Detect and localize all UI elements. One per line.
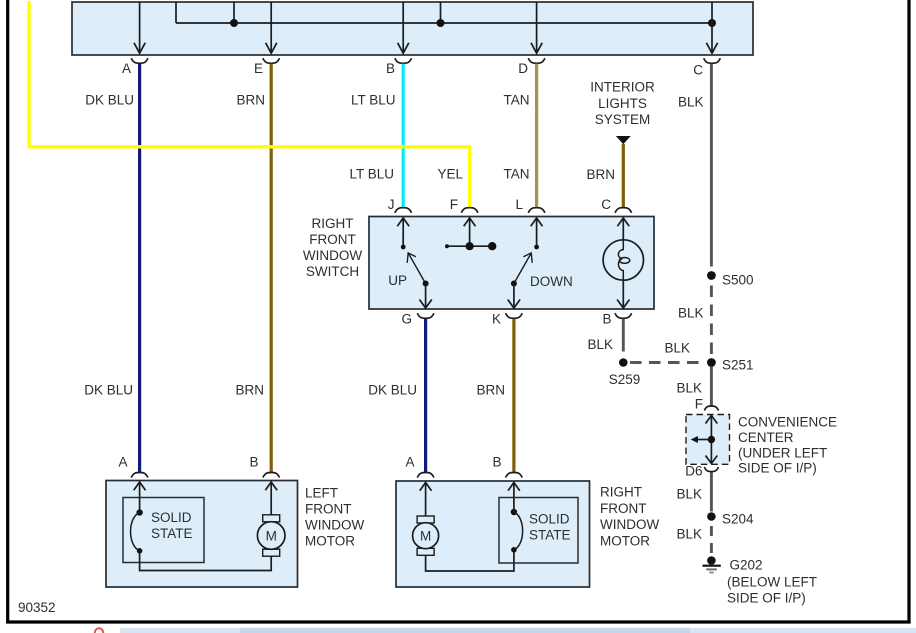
wire BLK (C to S500) (678, 64, 711, 267)
right motor pin B dome (492, 455, 522, 478)
svg-text:DK BLU: DK BLU (84, 383, 133, 398)
svg-text:STATE: STATE (529, 528, 571, 543)
left motor solid state box (123, 498, 204, 563)
interior lights system arrow triangle (616, 136, 631, 144)
switch pin C dome (601, 197, 631, 213)
svg-text:BLK: BLK (678, 95, 704, 110)
feed wire to pin B with arrow (398, 2, 409, 53)
wire YEL from off-page to switch F (29, 1, 470, 208)
svg-text:FRONT: FRONT (309, 232, 356, 247)
interior lights system label (590, 80, 655, 127)
bus wire inside power box (176, 22, 712, 24)
wire BRN left (E to left motor) (235, 64, 271, 472)
wire BRN (K to right motor B) (476, 319, 513, 472)
svg-text:A: A (405, 455, 414, 470)
left motor M symbol (257, 515, 285, 556)
convenience center label (738, 415, 837, 476)
switch G internal line with down arrow (419, 284, 431, 309)
svg-text:LT BLU: LT BLU (351, 93, 396, 108)
left motor B internal line with up arrow (265, 482, 277, 515)
svg-text:J: J (388, 197, 395, 212)
connector pin A cup (122, 58, 148, 76)
wire BLK (S251 to convenience center F) (676, 367, 711, 406)
svg-text:STATE: STATE (151, 526, 193, 541)
svg-text:SWITCH: SWITCH (306, 264, 359, 279)
svg-text:S259: S259 (609, 372, 641, 387)
svg-text:A: A (122, 61, 131, 76)
left motor bottom wire (140, 551, 272, 571)
bottom ui strip (95, 628, 916, 633)
junction dot x712 (708, 19, 716, 27)
feed wire to pin E with arrow (266, 2, 277, 53)
svg-text:B: B (249, 455, 258, 470)
svg-text:(BELOW LEFT: (BELOW LEFT (727, 575, 817, 590)
right front window switch label (303, 216, 362, 279)
left motor solid state contact arc (131, 509, 143, 553)
svg-text:BLK: BLK (664, 341, 690, 356)
wire BLK dashed (S500 to S251) (678, 286, 711, 356)
connector pin B cup (386, 58, 412, 76)
left motor pin B dome (249, 455, 279, 478)
svg-text:(UNDER LEFT: (UNDER LEFT (738, 445, 827, 460)
svg-text:MOTOR: MOTOR (600, 534, 650, 549)
svg-text:INTERIOR: INTERIOR (590, 80, 655, 95)
switch pin L dome (515, 197, 544, 213)
splice S251 (707, 358, 754, 373)
switch B internal line with down arrow (617, 280, 629, 308)
svg-text:F: F (450, 197, 458, 212)
wire feed x234 (233, 2, 235, 23)
splice S500 (707, 271, 754, 287)
switch C internal line with up arrow (617, 218, 629, 240)
svg-text:A: A (118, 455, 127, 470)
wire BRN (interior lights to switch C) (586, 144, 623, 208)
right motor A internal line with up arrow (420, 483, 432, 517)
svg-text:SIDE OF I/P): SIDE OF I/P) (727, 591, 806, 606)
svg-text:BLK: BLK (676, 381, 702, 396)
svg-text:BRN: BRN (586, 167, 615, 182)
feed wire to pin D with arrow (531, 2, 542, 53)
svg-text:FRONT: FRONT (600, 501, 647, 516)
svg-text:TAN: TAN (504, 93, 530, 108)
junction dot x234 (230, 19, 238, 27)
svg-text:CONVENIENCE: CONVENIENCE (738, 415, 837, 430)
svg-text:DK BLU: DK BLU (85, 93, 134, 108)
ground G202 (703, 556, 818, 605)
connector pin C cup (693, 58, 720, 77)
svg-text:WINDOW: WINDOW (303, 248, 362, 263)
right front window motor box M2 (396, 481, 590, 587)
wire DK BLU left (A to left motor) (84, 64, 139, 472)
wire DK BLU (G to right motor A) (368, 319, 425, 472)
svg-text:B: B (602, 312, 611, 327)
svg-text:DK BLU: DK BLU (368, 383, 417, 398)
svg-text:G: G (401, 312, 412, 327)
convenience center pin D6 cup (685, 464, 718, 479)
svg-text:BRN: BRN (476, 383, 505, 398)
svg-text:B: B (386, 61, 395, 76)
wire BLK (D6 to S204) (676, 472, 711, 511)
junction dot x440 (437, 19, 445, 27)
svg-text:S500: S500 (722, 273, 754, 288)
svg-text:M: M (420, 529, 431, 544)
right motor pin A dome (405, 455, 433, 478)
svg-text:LT BLU: LT BLU (349, 167, 394, 182)
left motor label (305, 486, 364, 549)
svg-text:C: C (601, 197, 611, 212)
svg-text:BLK: BLK (587, 337, 613, 352)
switch F internal pin line with up arrow (464, 218, 476, 246)
switch pin B cup (602, 312, 631, 327)
svg-text:BLK: BLK (676, 527, 702, 542)
right motor solid state box (499, 498, 578, 564)
switch DOWN wiper contact (511, 253, 573, 289)
switch UP wiper contact (388, 253, 428, 288)
indicator lamp DS1 (603, 240, 643, 280)
left motor pin A dome (118, 455, 147, 478)
svg-text:M: M (266, 529, 277, 544)
border frame left (6, 0, 9, 624)
wire BLK (switch B to S259) (587, 319, 623, 352)
svg-text:D: D (518, 61, 528, 76)
right motor B internal line with up arrow (508, 483, 520, 513)
wire BLK dashed (S204 to G202) (676, 526, 711, 553)
right motor M symbol (413, 516, 439, 555)
svg-text:S204: S204 (722, 512, 754, 527)
svg-text:RIGHT: RIGHT (600, 485, 642, 500)
svg-text:G202: G202 (730, 558, 763, 573)
border frame right (907, 0, 910, 624)
svg-text:SOLID: SOLID (529, 512, 570, 527)
left motor A internal line with up arrow (134, 482, 146, 513)
svg-text:TAN: TAN (504, 167, 530, 182)
right motor bottom wire (426, 550, 514, 571)
switch pin J dome (388, 197, 412, 213)
switch F common bar with contacts (445, 242, 496, 250)
switch pin K cup (492, 312, 522, 327)
splice S259 (609, 358, 641, 387)
svg-text:F: F (695, 397, 703, 412)
svg-text:BLK: BLK (678, 306, 704, 321)
wire BLK dashed (S259 to S251) (630, 341, 705, 363)
svg-text:SYSTEM: SYSTEM (595, 112, 651, 127)
svg-text:MOTOR: MOTOR (305, 534, 355, 549)
right motor solid state contact arc (511, 509, 523, 553)
svg-text:WINDOW: WINDOW (600, 517, 659, 532)
splice S204 (707, 512, 754, 527)
svg-text:LIGHTS: LIGHTS (598, 96, 647, 111)
feed wire to pin C with arrow (706, 2, 717, 53)
wire TAN (D to switch L) (504, 64, 537, 208)
svg-text:C: C (693, 63, 703, 78)
svg-text:L: L (515, 197, 523, 212)
svg-text:BLK: BLK (676, 487, 702, 502)
right motor label (600, 485, 659, 549)
svg-text:UP: UP (388, 273, 407, 288)
right front window switch box S1 (369, 217, 654, 310)
svg-text:WINDOW: WINDOW (305, 518, 364, 533)
svg-text:D6: D6 (685, 464, 702, 479)
switch pin F dome (450, 197, 478, 213)
switch pin G cup (401, 312, 433, 327)
diagram number 90352 (18, 600, 56, 615)
svg-text:YEL: YEL (437, 167, 463, 182)
convenience center internal wire with arrows (706, 416, 718, 464)
connector pin D cup (518, 58, 545, 76)
convenience center box (686, 415, 730, 465)
wire LT BLU (B to switch J) (349, 64, 403, 208)
power distribution box U1 (72, 2, 753, 55)
convenience center junction dot with left arrow (691, 436, 715, 443)
border frame bottom (6, 620, 911, 623)
svg-text:S251: S251 (722, 358, 754, 373)
svg-text:90352: 90352 (18, 600, 56, 615)
connector pin E cup (254, 58, 280, 76)
svg-text:BRN: BRN (236, 93, 265, 108)
svg-text:RIGHT: RIGHT (312, 216, 354, 231)
wire feed x176 (175, 2, 177, 23)
svg-text:BRN: BRN (235, 383, 264, 398)
svg-text:LEFT: LEFT (305, 486, 338, 501)
svg-text:CENTER: CENTER (738, 430, 794, 445)
feed wire to pin A with arrow (134, 2, 145, 53)
svg-text:FRONT: FRONT (305, 502, 352, 517)
svg-text:SOLID: SOLID (151, 510, 192, 525)
switch K internal line with down arrow (508, 284, 520, 309)
svg-text:K: K (492, 312, 501, 327)
switch J internal pin line with up arrow (397, 218, 409, 249)
svg-text:B: B (492, 455, 501, 470)
convenience center pin F dome (695, 397, 719, 412)
left front window motor box M1 (106, 481, 298, 588)
wire feed x440 (440, 2, 442, 23)
switch L internal pin line with up arrow (531, 218, 543, 249)
svg-text:DOWN: DOWN (530, 274, 573, 289)
svg-text:SIDE OF I/P): SIDE OF I/P) (738, 461, 817, 476)
svg-text:E: E (254, 61, 263, 76)
